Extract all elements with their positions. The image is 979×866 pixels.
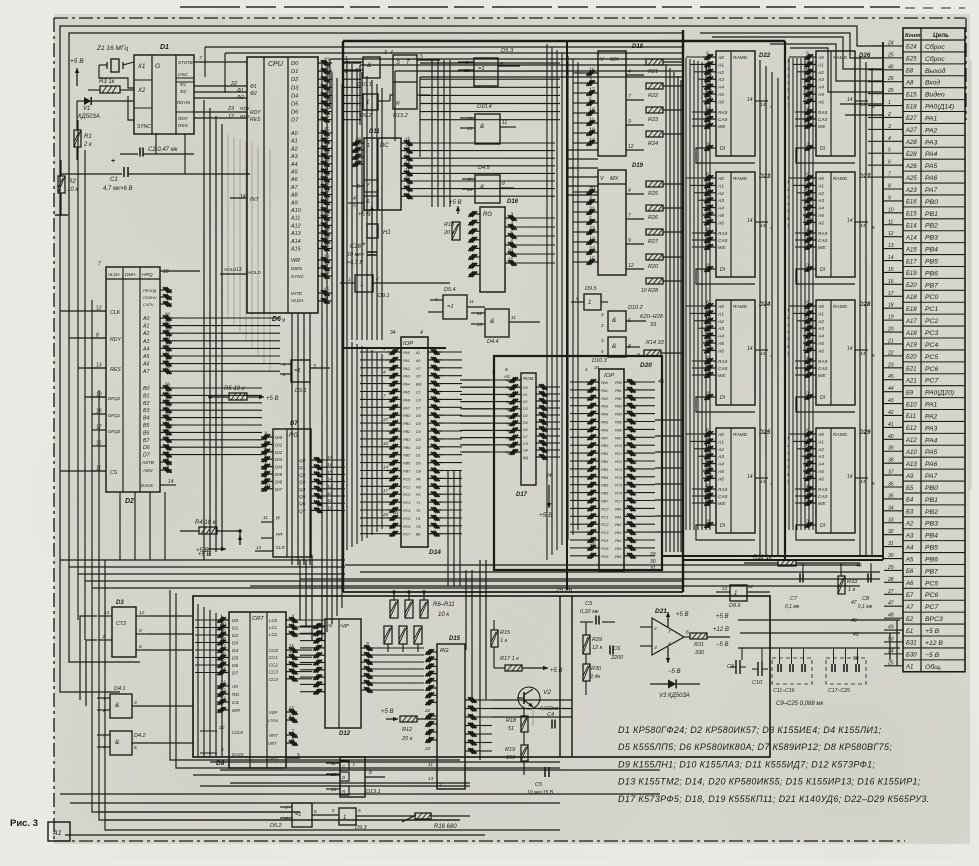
svg-text:−5 В: −5 В bbox=[716, 642, 729, 648]
svg-text:CAS: CAS bbox=[818, 366, 828, 371]
svg-text:D5: D5 bbox=[291, 102, 299, 108]
svg-text:7: 7 bbox=[291, 730, 294, 736]
svg-text:РВ7: РВ7 bbox=[615, 436, 623, 440]
svg-text:25: 25 bbox=[887, 88, 894, 94]
svg-text:А19: А19 bbox=[905, 343, 917, 349]
svg-text:D4.1: D4.1 bbox=[114, 686, 126, 692]
svg-text:23: 23 bbox=[887, 362, 894, 368]
svg-text:Q3: Q3 bbox=[299, 480, 306, 486]
svg-text:A3: A3 bbox=[717, 326, 724, 332]
svg-text:+5 В: +5 В bbox=[70, 58, 84, 65]
svg-text:РА0: РА0 bbox=[615, 507, 622, 511]
svg-text:12: 12 bbox=[139, 610, 145, 616]
svg-text:&: & bbox=[480, 123, 484, 130]
svg-text:55: 55 bbox=[393, 510, 399, 516]
svg-text:Конт: Конт bbox=[905, 33, 921, 39]
svg-text:A1: A1 bbox=[142, 324, 149, 330]
svg-text:D17: D17 bbox=[516, 492, 528, 498]
svg-text:A4: A4 bbox=[717, 85, 724, 91]
svg-text:B6: B6 bbox=[143, 430, 149, 436]
svg-text:=1: =1 bbox=[295, 812, 301, 818]
svg-text:РВ5: РВ5 bbox=[615, 421, 622, 425]
svg-text:+5 В: +5 В bbox=[550, 668, 563, 674]
svg-text:RES: RES bbox=[178, 123, 189, 129]
svg-text:39: 39 bbox=[323, 235, 329, 241]
svg-text:14: 14 bbox=[760, 351, 766, 357]
svg-text:20 к: 20 к bbox=[401, 736, 413, 742]
svg-text:MX: MX bbox=[610, 176, 619, 182]
svg-text:КД503А: КД503А bbox=[78, 114, 100, 120]
svg-text:Б19: Б19 bbox=[906, 271, 917, 277]
svg-text:22: 22 bbox=[230, 81, 237, 87]
svg-text:26: 26 bbox=[322, 135, 329, 141]
svg-text:RAMD: RAMD bbox=[833, 55, 848, 61]
svg-text:A7: A7 bbox=[290, 185, 299, 191]
svg-text:21: 21 bbox=[887, 338, 894, 344]
svg-text:1: 1 bbox=[348, 277, 351, 283]
svg-text:40: 40 bbox=[888, 434, 894, 440]
svg-text:8: 8 bbox=[166, 457, 169, 463]
svg-text:CAS: CAS bbox=[718, 117, 728, 122]
svg-text:D6: D6 bbox=[232, 663, 238, 669]
svg-text:37: 37 bbox=[383, 417, 389, 422]
svg-text:32: 32 bbox=[164, 343, 170, 349]
svg-text:Б17: Б17 bbox=[906, 259, 917, 265]
svg-text:9: 9 bbox=[139, 628, 142, 634]
svg-text:24: 24 bbox=[545, 473, 552, 479]
svg-text:14: 14 bbox=[847, 346, 853, 352]
svg-text:1 к: 1 к bbox=[848, 587, 856, 593]
svg-text:A2: A2 bbox=[817, 447, 824, 453]
svg-text:150: 150 bbox=[506, 755, 516, 761]
svg-text:CLK: CLK bbox=[110, 310, 121, 316]
svg-text:R18: R18 bbox=[506, 718, 517, 724]
svg-text:20 к: 20 к bbox=[443, 230, 455, 236]
svg-text:РВ3: РВ3 bbox=[601, 468, 609, 472]
svg-text:29: 29 bbox=[887, 565, 894, 571]
svg-text:А1: А1 bbox=[52, 830, 62, 837]
svg-text:9: 9 bbox=[166, 465, 169, 471]
svg-text:П0: П0 bbox=[416, 525, 421, 529]
svg-text:SYNC: SYNC bbox=[137, 124, 151, 130]
svg-text:РА6: РА6 bbox=[925, 175, 938, 182]
svg-text:D2: D2 bbox=[416, 446, 421, 450]
svg-text:Б14: Б14 bbox=[906, 224, 917, 230]
svg-text:D7: D7 bbox=[291, 118, 299, 124]
svg-text:2: 2 bbox=[805, 392, 809, 398]
svg-text:CRT: CRT bbox=[252, 616, 264, 622]
svg-text:РВ3: РВ3 bbox=[925, 521, 938, 528]
svg-text:Q6: Q6 bbox=[299, 501, 306, 507]
svg-text:22: 22 bbox=[424, 708, 431, 714]
svg-text:+: + bbox=[111, 158, 115, 165]
svg-text:14: 14 bbox=[760, 102, 766, 108]
svg-text:A12: A12 bbox=[290, 223, 301, 229]
svg-text:D4: D4 bbox=[291, 93, 298, 99]
svg-text:3: 3 bbox=[384, 50, 387, 56]
svg-text:CC1: CC1 bbox=[269, 655, 278, 660]
svg-text:A5: A5 bbox=[817, 469, 824, 475]
svg-text:11: 11 bbox=[706, 202, 711, 208]
svg-text:8: 8 bbox=[369, 770, 372, 776]
svg-text:B5: B5 bbox=[143, 423, 149, 429]
svg-text:29: 29 bbox=[322, 151, 329, 157]
svg-text:2: 2 bbox=[887, 112, 891, 118]
svg-text:D5: D5 bbox=[416, 422, 421, 426]
svg-text:S: S bbox=[396, 60, 400, 66]
svg-text:РА3: РА3 bbox=[925, 425, 938, 432]
svg-text:А5: А5 bbox=[905, 557, 914, 563]
svg-text:CAS: CAS bbox=[818, 238, 828, 243]
svg-text:1: 1 bbox=[888, 100, 891, 106]
svg-text:42: 42 bbox=[888, 410, 894, 416]
svg-text:A0: A0 bbox=[717, 176, 724, 182]
svg-text:14: 14 bbox=[404, 145, 410, 151]
svg-text:Рис. 3: Рис. 3 bbox=[10, 818, 38, 829]
svg-text:11: 11 bbox=[706, 330, 711, 336]
svg-text:РС3: РС3 bbox=[403, 501, 411, 505]
svg-text:18: 18 bbox=[888, 303, 894, 309]
svg-text:РВ6: РВ6 bbox=[615, 428, 622, 432]
svg-text:14: 14 bbox=[860, 479, 866, 485]
svg-text:CC4: CC4 bbox=[269, 677, 278, 682]
svg-text:DRQ2: DRQ2 bbox=[108, 396, 121, 401]
svg-text:17: 17 bbox=[323, 263, 329, 269]
svg-text:12: 12 bbox=[706, 451, 712, 457]
svg-text:14: 14 bbox=[747, 474, 753, 480]
svg-text:РВ5: РВ5 bbox=[925, 258, 938, 265]
svg-text:РВ4: РВ4 bbox=[403, 446, 410, 450]
svg-text:50: 50 bbox=[888, 636, 894, 642]
svg-text:35: 35 bbox=[164, 320, 170, 326]
svg-text:35: 35 bbox=[323, 197, 329, 203]
svg-text:10: 10 bbox=[706, 338, 712, 344]
svg-text:D5: D5 bbox=[523, 421, 528, 425]
svg-text:−5 В: −5 В bbox=[925, 652, 940, 659]
svg-text:33: 33 bbox=[323, 181, 329, 187]
svg-text:РВ2: РВ2 bbox=[615, 397, 622, 401]
svg-text:1: 1 bbox=[283, 362, 286, 368]
svg-text:CPU: CPU bbox=[268, 61, 284, 68]
svg-text:R2: R2 bbox=[68, 179, 76, 185]
svg-text:R4 10 к: R4 10 к bbox=[195, 520, 217, 526]
svg-text:B2: B2 bbox=[143, 401, 149, 407]
svg-text:D12: D12 bbox=[339, 731, 351, 737]
svg-text:Q7: Q7 bbox=[299, 508, 306, 514]
svg-text:VRT: VRT bbox=[268, 741, 277, 746]
svg-text:35: 35 bbox=[590, 541, 596, 547]
svg-text:14: 14 bbox=[860, 351, 866, 357]
svg-text:9: 9 bbox=[407, 183, 410, 189]
svg-text:A5: A5 bbox=[717, 92, 724, 98]
svg-text:РА4: РА4 bbox=[615, 539, 622, 543]
svg-text:Б6: Б6 bbox=[906, 569, 914, 575]
svg-text:R: R bbox=[396, 101, 400, 107]
svg-text:37: 37 bbox=[220, 645, 226, 651]
svg-text:+5 В: +5 В bbox=[925, 628, 940, 635]
svg-text:14: 14 bbox=[747, 97, 753, 103]
svg-text:6: 6 bbox=[888, 160, 891, 166]
svg-text:РС6: РС6 bbox=[615, 492, 622, 496]
svg-text:38: 38 bbox=[888, 458, 894, 464]
svg-text:РС2: РС2 bbox=[601, 523, 609, 527]
svg-text:D11: D11 bbox=[369, 129, 380, 135]
svg-text:A5: A5 bbox=[717, 213, 724, 219]
svg-text:D17 К573РФ5; D18, D19 К555К: D17 К573РФ5; D18, D19 К555КП11; D21 К140… bbox=[618, 794, 930, 804]
svg-text:A2: A2 bbox=[817, 70, 824, 76]
svg-text:32: 32 bbox=[888, 529, 894, 535]
svg-text:HRQ: HRQ bbox=[142, 272, 153, 278]
svg-text:A2: A2 bbox=[290, 146, 298, 152]
svg-text:А9: А9 bbox=[905, 474, 914, 480]
svg-text:CAS: CAS bbox=[818, 117, 828, 122]
svg-text:RG: RG bbox=[440, 648, 449, 654]
svg-text:7: 7 bbox=[98, 261, 101, 267]
svg-text:WE: WE bbox=[718, 245, 726, 250]
svg-text:2: 2 bbox=[786, 314, 790, 319]
svg-text:РС5: РС5 bbox=[925, 354, 938, 361]
svg-text:D5.4: D5.4 bbox=[444, 287, 456, 293]
svg-text:РА3: РА3 bbox=[403, 375, 411, 379]
svg-text:DACK: DACK bbox=[232, 752, 244, 757]
svg-text:РВ3: РВ3 bbox=[925, 235, 938, 242]
svg-text:D13.1: D13.1 bbox=[366, 789, 381, 795]
svg-text:D7: D7 bbox=[290, 421, 298, 427]
svg-text:D9 К155ЛН1; D10 К155ЛА3; D: D9 К155ЛН1; D10 К155ЛА3; D11 К555ИД7; D1… bbox=[618, 759, 875, 769]
svg-text:A5: A5 bbox=[817, 341, 824, 347]
svg-text:DACK: DACK bbox=[141, 483, 154, 488]
svg-text:R17 1 к: R17 1 к bbox=[500, 656, 519, 662]
svg-text:1: 1 bbox=[585, 367, 588, 373]
svg-text:27: 27 bbox=[322, 143, 329, 149]
svg-text:D10.2: D10.2 bbox=[628, 305, 643, 311]
svg-text:34: 34 bbox=[594, 365, 600, 371]
svg-text:РВ7: РВ7 bbox=[925, 282, 938, 289]
svg-text:2: 2 bbox=[290, 629, 294, 635]
svg-text:D5 К555ЛП5; D6 КР580ИК80А;: D5 К555ЛП5; D6 КР580ИК80А; D7 К589ИР12; … bbox=[618, 742, 892, 752]
svg-text:D15: D15 bbox=[449, 636, 461, 642]
svg-text:Ф2: Ф2 bbox=[237, 95, 244, 101]
svg-text:Ф1: Ф1 bbox=[180, 82, 187, 87]
svg-text:3: 3 bbox=[313, 364, 316, 370]
svg-text:47: 47 bbox=[851, 600, 857, 606]
svg-text:РВ6: РВ6 bbox=[403, 462, 411, 466]
svg-text:РС6: РС6 bbox=[925, 366, 938, 373]
svg-text:DBIN: DBIN bbox=[291, 266, 303, 271]
svg-text:A5: A5 bbox=[817, 213, 824, 219]
svg-text:7: 7 bbox=[264, 461, 267, 467]
svg-text:2: 2 bbox=[805, 520, 809, 526]
svg-text:3: 3 bbox=[510, 213, 513, 219]
svg-text:10 к: 10 к bbox=[438, 612, 450, 618]
svg-text:РС7: РС7 bbox=[925, 378, 938, 385]
svg-text:4: 4 bbox=[510, 222, 513, 228]
svg-text:B7: B7 bbox=[143, 438, 150, 444]
svg-text:34: 34 bbox=[220, 667, 226, 673]
svg-text:A1: A1 bbox=[290, 139, 298, 145]
svg-text:Т1: Т1 bbox=[416, 501, 420, 505]
svg-text:9: 9 bbox=[628, 238, 631, 244]
svg-text:Б31: Б31 bbox=[906, 641, 917, 647]
svg-text:WE: WE bbox=[718, 373, 726, 378]
svg-text:РА7: РА7 bbox=[925, 187, 938, 194]
svg-text:Цепь: Цепь bbox=[933, 32, 949, 39]
svg-text:4: 4 bbox=[390, 50, 393, 56]
svg-text:×6,3 В: ×6,3 В bbox=[347, 260, 363, 266]
svg-text:7: 7 bbox=[628, 213, 631, 219]
svg-text:РА0: РА0 bbox=[403, 351, 411, 355]
svg-text:4: 4 bbox=[601, 312, 604, 317]
svg-text:РВ4: РВ4 bbox=[925, 533, 938, 540]
svg-text:РА4: РА4 bbox=[925, 437, 938, 444]
svg-text:34: 34 bbox=[888, 505, 894, 511]
svg-text:DI3: DI3 bbox=[275, 457, 283, 462]
svg-text:CAS: CAS bbox=[718, 238, 728, 243]
svg-text:A1: A1 bbox=[817, 439, 824, 445]
svg-text:45: 45 bbox=[658, 379, 665, 385]
svg-text:12: 12 bbox=[706, 74, 712, 80]
svg-text:WE: WE bbox=[818, 245, 826, 250]
svg-text:DI: DI bbox=[720, 267, 726, 273]
svg-text:2: 2 bbox=[101, 634, 105, 639]
svg-text:10 к: 10 к bbox=[67, 187, 79, 193]
svg-text:34: 34 bbox=[164, 328, 170, 334]
svg-text:5: 5 bbox=[420, 54, 423, 60]
svg-text:С9: С9 bbox=[727, 664, 734, 670]
svg-text:А4: А4 bbox=[506, 408, 512, 412]
svg-text:4: 4 bbox=[383, 370, 386, 375]
svg-text:5: 5 bbox=[601, 349, 604, 354]
svg-text:9: 9 bbox=[492, 369, 495, 375]
svg-text:DI: DI bbox=[820, 146, 826, 152]
svg-text:4: 4 bbox=[353, 196, 356, 202]
svg-text:A2: A2 bbox=[717, 447, 724, 453]
svg-text:RAS: RAS bbox=[718, 359, 728, 364]
svg-text:12: 12 bbox=[628, 263, 634, 269]
svg-text:D5.3: D5.3 bbox=[501, 48, 514, 54]
svg-text:РА2: РА2 bbox=[925, 127, 938, 134]
svg-text:9: 9 bbox=[628, 119, 631, 125]
svg-text:РС5: РС5 bbox=[601, 547, 609, 551]
svg-text:ПОЛНЧ: ПОЛНЧ bbox=[143, 296, 157, 300]
svg-text:Б5: Б5 bbox=[906, 486, 914, 492]
svg-text:R5 10 к: R5 10 к bbox=[224, 386, 246, 392]
svg-text:РС6: РС6 bbox=[403, 525, 411, 529]
svg-text:6: 6 bbox=[358, 808, 361, 814]
svg-text:DI2: DI2 bbox=[275, 450, 283, 455]
svg-text:WE: WE bbox=[818, 501, 826, 506]
svg-text:6: 6 bbox=[510, 240, 513, 246]
svg-text:Б2: Б2 bbox=[906, 617, 914, 623]
svg-text:33: 33 bbox=[650, 322, 657, 328]
svg-text:D0: D0 bbox=[232, 618, 238, 624]
svg-text:РС5: РС5 bbox=[925, 580, 938, 587]
svg-text:DI7: DI7 bbox=[275, 487, 283, 492]
svg-text:A3: A3 bbox=[717, 77, 724, 83]
svg-text:+12 В: +12 В bbox=[713, 627, 729, 633]
svg-text:3: 3 bbox=[291, 622, 294, 628]
svg-text:39: 39 bbox=[888, 446, 894, 452]
svg-text:A0: A0 bbox=[142, 316, 149, 322]
svg-text:РВ4: РВ4 bbox=[615, 413, 622, 417]
svg-text:Б4: Б4 bbox=[906, 498, 914, 504]
svg-text:РС5: РС5 bbox=[615, 484, 622, 488]
svg-text:MX: MX bbox=[610, 57, 619, 63]
svg-text:WR: WR bbox=[232, 708, 241, 714]
svg-text:РВ1: РВ1 bbox=[925, 211, 938, 218]
svg-text:10: 10 bbox=[706, 210, 712, 216]
svg-text:CC2: CC2 bbox=[269, 662, 278, 667]
svg-text:D9.1: D9.1 bbox=[378, 293, 390, 299]
svg-text:А25: А25 bbox=[905, 176, 917, 182]
svg-text:D3: D3 bbox=[416, 438, 421, 442]
svg-text:Б15: Б15 bbox=[906, 212, 917, 218]
svg-text:A0: A0 bbox=[817, 304, 824, 310]
svg-text:22: 22 bbox=[163, 412, 170, 418]
svg-text:D22: D22 bbox=[759, 52, 771, 59]
svg-text:1: 1 bbox=[588, 300, 591, 306]
svg-text:D2: D2 bbox=[523, 400, 528, 404]
svg-text:29: 29 bbox=[649, 552, 656, 558]
svg-text:20: 20 bbox=[382, 512, 389, 517]
svg-text:D1: D1 bbox=[160, 44, 169, 51]
svg-text:Б20: Б20 bbox=[906, 283, 917, 289]
svg-text:10: 10 bbox=[163, 269, 169, 275]
svg-text:A6: A6 bbox=[142, 362, 149, 368]
svg-text:11: 11 bbox=[706, 458, 711, 464]
svg-text:IOP: IOP bbox=[403, 341, 413, 347]
svg-text:LC2: LC2 bbox=[269, 632, 278, 637]
svg-text:13: 13 bbox=[722, 586, 727, 591]
svg-text:4: 4 bbox=[888, 136, 891, 142]
svg-text:A6: A6 bbox=[817, 220, 824, 226]
svg-text:HRT: HRT bbox=[269, 733, 278, 738]
svg-text:A14: A14 bbox=[290, 239, 301, 245]
svg-text:19: 19 bbox=[323, 271, 329, 277]
svg-text:RDYIN: RDYIN bbox=[177, 100, 191, 105]
svg-text:8: 8 bbox=[505, 367, 508, 373]
svg-text:A8: A8 bbox=[290, 193, 298, 199]
svg-text:5: 5 bbox=[706, 52, 709, 58]
svg-text:D16: D16 bbox=[507, 199, 519, 205]
svg-text:HOLD: HOLD bbox=[224, 267, 237, 272]
svg-text:С11–С16: С11–С16 bbox=[773, 688, 795, 694]
svg-text:3: 3 bbox=[134, 700, 137, 706]
svg-text:A0: A0 bbox=[717, 304, 724, 310]
svg-text:ПР: ПР bbox=[523, 449, 529, 453]
svg-text:17: 17 bbox=[383, 488, 389, 493]
svg-text:А21: А21 bbox=[905, 378, 917, 384]
svg-text:27: 27 bbox=[887, 589, 894, 595]
svg-text:15: 15 bbox=[706, 235, 712, 241]
svg-text:Вход: Вход bbox=[925, 79, 940, 87]
svg-text:A5: A5 bbox=[817, 92, 824, 98]
svg-text:RAS: RAS bbox=[818, 487, 828, 492]
svg-text:LC1: LC1 bbox=[269, 625, 278, 630]
svg-text:41: 41 bbox=[888, 422, 894, 428]
svg-text:14: 14 bbox=[847, 474, 853, 480]
svg-text:РА3: РА3 bbox=[601, 405, 609, 409]
svg-text:3: 3 bbox=[888, 124, 891, 130]
svg-text:11: 11 bbox=[511, 315, 516, 321]
svg-text:V1: V1 bbox=[83, 106, 90, 112]
svg-text:2: 2 bbox=[786, 186, 790, 191]
svg-text:R28: R28 bbox=[648, 288, 659, 294]
svg-text:РС1: РС1 bbox=[601, 515, 608, 519]
svg-text:А23: А23 bbox=[905, 188, 917, 194]
svg-text:A10: A10 bbox=[290, 208, 301, 214]
svg-text:СБ: СБ bbox=[416, 470, 422, 474]
